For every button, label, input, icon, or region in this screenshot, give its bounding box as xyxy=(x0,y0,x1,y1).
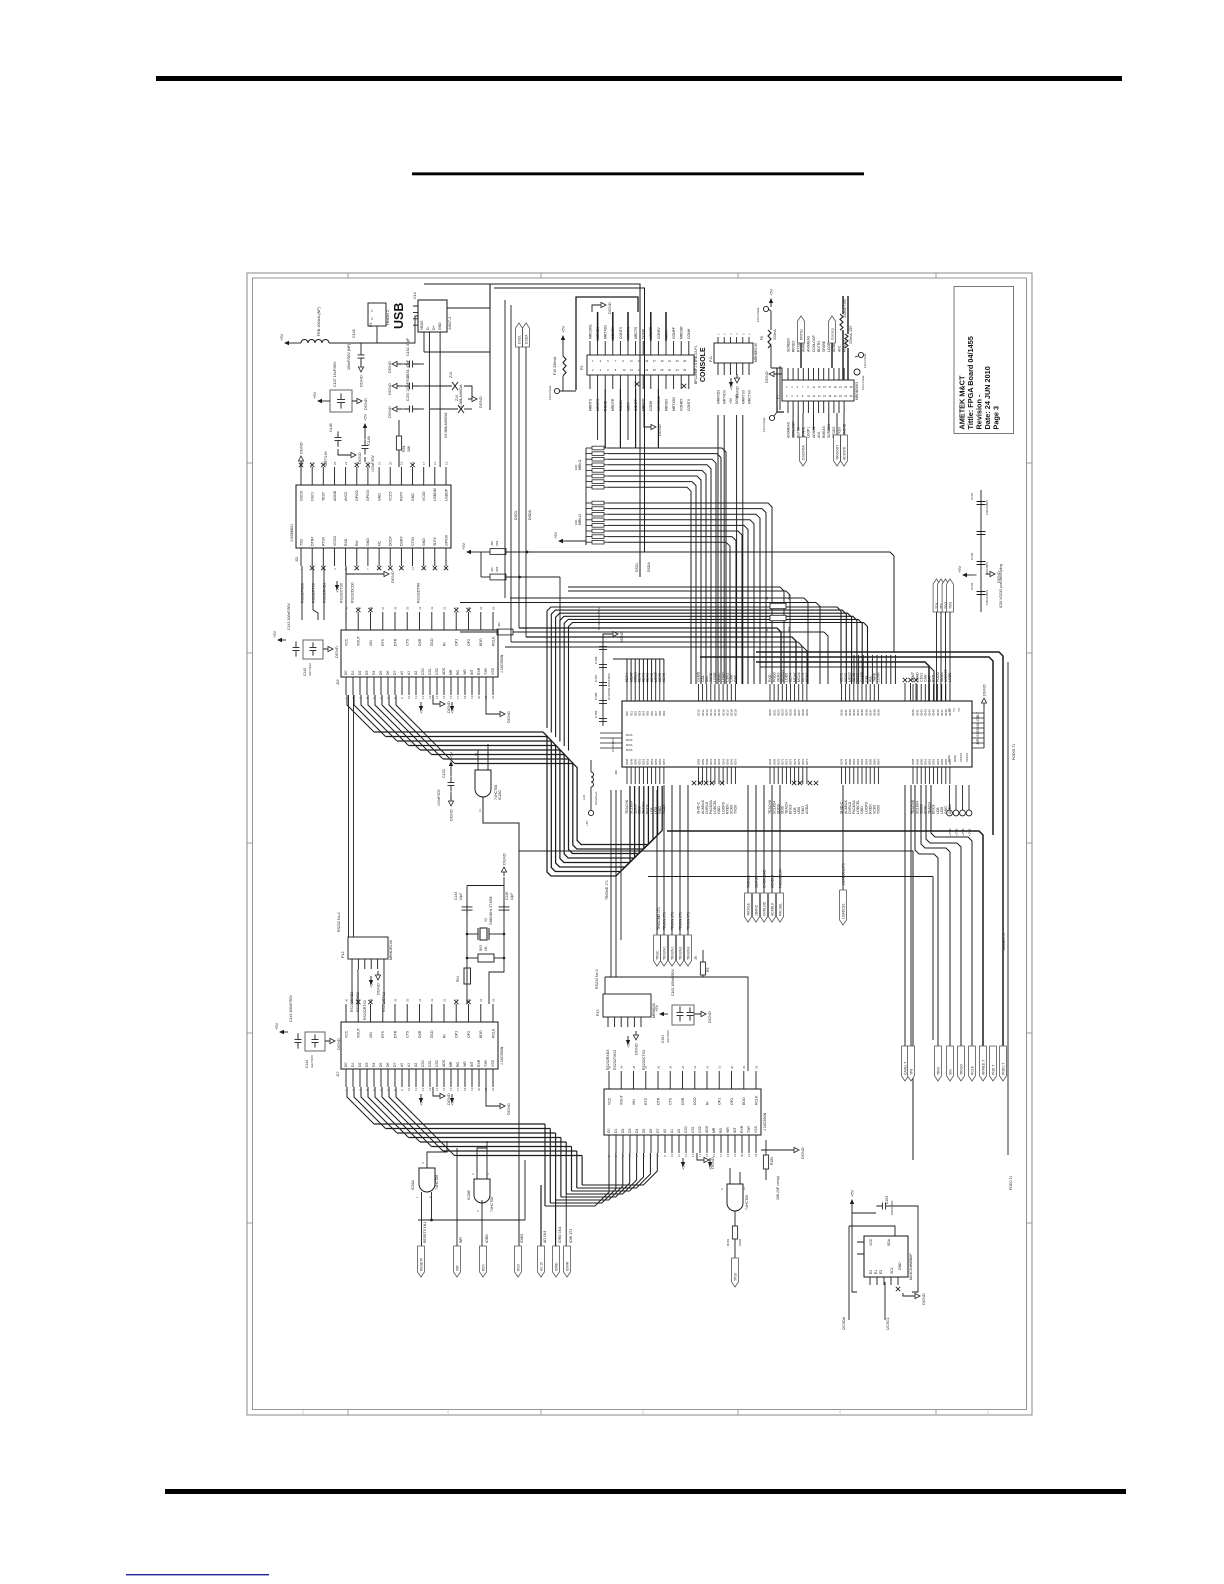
svg-text:32: 32 xyxy=(705,1065,709,1069)
svg-text:DOA: DOA xyxy=(626,748,633,752)
svg-text:2K4: 2K4 xyxy=(787,594,791,600)
svg-text:29: 29 xyxy=(742,1065,746,1069)
power +5V below UART2 xyxy=(419,1094,455,1106)
svg-text:RS232 No.2: RS232 No.2 xyxy=(337,912,341,932)
svg-text:IO19: IO19 xyxy=(734,709,738,716)
svg-text:14: 14 xyxy=(638,368,641,372)
svg-text:+5V: +5V xyxy=(461,542,466,550)
svg-text:A2: A2 xyxy=(414,671,418,675)
capacitor C133 100nF xyxy=(437,769,455,806)
svg-text:31: 31 xyxy=(718,1065,722,1069)
FPGA right GND pins xyxy=(972,684,987,748)
svg-text:WR: WR xyxy=(463,1061,467,1067)
svg-text:13: 13 xyxy=(428,1087,432,1091)
svg-text:DGND: DGND xyxy=(359,375,364,387)
svg-text:INT: INT xyxy=(470,1061,474,1067)
net flags OVERLOAD group xyxy=(745,785,784,922)
svg-text:P12: P12 xyxy=(341,952,345,958)
svg-text:DGND: DGND xyxy=(921,1293,926,1305)
svg-text:J16: J16 xyxy=(336,679,340,685)
capacitor C146b 10pF xyxy=(499,892,515,914)
svg-text:4uF7/16V: 4uF7/16V xyxy=(666,1030,670,1043)
EEPROM net labels xyxy=(842,1316,890,1330)
svg-text:DSR: DSR xyxy=(681,1097,685,1105)
svg-text:DTR#: DTR# xyxy=(310,537,314,546)
svg-text:P4: P4 xyxy=(369,323,373,327)
svg-text:RRTS0: RRTS0 xyxy=(799,329,803,340)
svg-text:MRHDR1X6: MRHDR1X6 xyxy=(754,343,758,362)
svg-text:XIN: XIN xyxy=(632,1099,636,1105)
ground DGND at C107 xyxy=(352,398,368,410)
power +5V at C162 xyxy=(654,1004,668,1016)
svg-text:TRIGIN2: TRIGIN2 xyxy=(678,947,682,960)
svg-text:D2: D2 xyxy=(621,1129,625,1133)
power +5V I2C pullups xyxy=(461,542,475,554)
svg-text:TXD: TXD xyxy=(299,538,303,546)
svg-text:1mm Pads: 1mm Pads xyxy=(863,353,867,368)
svg-text:74HCT00: 74HCT00 xyxy=(745,1195,749,1210)
svg-text:16: 16 xyxy=(712,1153,716,1157)
wire P11 nets down xyxy=(718,415,743,684)
wire FTDI TXD/RXD down to UART1 xyxy=(302,566,346,620)
svg-text:100nF/50V (NF): 100nF/50V (NF) xyxy=(347,344,351,370)
svg-text:MRb11: MRb11 xyxy=(578,459,582,470)
svg-text:D0: D0 xyxy=(607,1129,611,1133)
svg-text:MRb10: MRb10 xyxy=(578,514,582,525)
svg-text:35: 35 xyxy=(406,606,410,610)
net flags TRIGIN group xyxy=(661,785,692,966)
svg-text:+5V: +5V xyxy=(363,413,368,421)
ground DGND at P11 xyxy=(734,374,739,398)
svg-text:21: 21 xyxy=(668,359,671,363)
power +5V at P13 xyxy=(626,1036,631,1048)
svg-text:DGND: DGND xyxy=(390,571,395,583)
svg-text:DGND: DGND xyxy=(657,424,662,436)
svg-text:RDTR0: RDTR0 xyxy=(817,341,821,352)
ground DGND below UART3 xyxy=(697,1153,715,1169)
svg-text:DSDA: DSDA xyxy=(528,509,532,520)
svg-text:SCREEN: SCREEN xyxy=(786,337,790,352)
svg-text:ADS: ADS xyxy=(442,667,446,675)
svg-text:CS0: CS0 xyxy=(421,668,425,675)
resistor R91 10K xyxy=(396,420,411,467)
resistor J60 2K4 pullup xyxy=(475,540,528,554)
svg-text:GND: GND xyxy=(422,538,426,546)
title block xyxy=(954,287,1014,434)
svg-text:DSR: DSR xyxy=(418,638,422,646)
svg-text:OVERLOAD: OVERLOAD xyxy=(762,869,766,888)
wire +5V to USB VBUS xyxy=(293,316,418,343)
power +5V at C133 xyxy=(449,751,454,800)
svg-text:J17: J17 xyxy=(336,1071,340,1077)
svg-text:C152 47pF: C152 47pF xyxy=(406,337,410,356)
svg-text:VCC: VCC xyxy=(607,1097,611,1105)
svg-text:C146: C146 xyxy=(329,423,333,432)
svg-text:IOW 1T1: IOW 1T1 xyxy=(569,1229,573,1243)
svg-text:+5V: +5V xyxy=(553,531,558,539)
svg-text:SPARE: SPARE xyxy=(822,340,826,352)
svg-text:R91: R91 xyxy=(402,445,406,452)
svg-text:〈: 〈 xyxy=(445,1410,449,1415)
svg-text:12: 12 xyxy=(684,1153,688,1157)
power +5V at resistor arrays xyxy=(553,531,586,545)
svg-text:R180: R180 xyxy=(770,1157,774,1165)
svg-text:RCLK: RCLK xyxy=(970,1065,974,1075)
svg-text:10K (NF comp): 10K (NF comp) xyxy=(776,1176,780,1200)
svg-text:IO87: IO87 xyxy=(877,758,881,765)
svg-text:MRDSR: MRDSR xyxy=(680,326,684,339)
svg-text:RI#: RI# xyxy=(355,540,359,546)
resistor R94 100R xyxy=(456,968,471,984)
svg-text:D1: D1 xyxy=(351,671,355,675)
svg-text:DSCIN5A: DSCIN5A xyxy=(801,445,805,460)
svg-text:DSCL: DSCL xyxy=(514,510,518,520)
svg-text:MRDB26K3: MRDB26K3 xyxy=(855,382,859,400)
svg-text:18: 18 xyxy=(463,1087,467,1091)
net flag RRTS0 xyxy=(798,316,805,368)
svg-text:RMEAS: RMEAS xyxy=(822,425,826,438)
wire USB shield loop xyxy=(424,284,490,410)
power +5V at F10 xyxy=(561,325,566,344)
svg-text:MRRXD0: MRRXD0 xyxy=(717,390,721,404)
svg-text:ACK5TD: ACK5TD xyxy=(842,446,846,460)
svg-text:VCCO: VCCO xyxy=(959,752,963,762)
svg-text:12: 12 xyxy=(421,1087,425,1091)
power +5V at C149 xyxy=(363,413,368,432)
svg-text:13: 13 xyxy=(638,359,641,363)
ground DGND at C150 xyxy=(387,406,403,418)
svg-text:+5V: +5V xyxy=(312,391,317,399)
svg-text:14: 14 xyxy=(435,695,439,699)
svg-text:1M: 1M xyxy=(484,946,488,951)
crystal Y2 3.6864MHz xyxy=(466,896,506,940)
IC U26 FPGA XPLS1296 xyxy=(600,684,980,784)
svg-text:2K9: 2K9 xyxy=(495,566,499,572)
FTDI no-connect crosses xyxy=(310,566,448,570)
ground DGND at C146/C149 xyxy=(338,449,365,464)
svg-text:DCD: DCD xyxy=(430,638,434,646)
svg-text:TRIGOUT: TRIGOUT xyxy=(835,445,839,460)
svg-text:F10 330mA: F10 330mA xyxy=(553,356,557,375)
capacitors C156-C160 FPGA decoupling xyxy=(594,640,611,726)
svg-text:J60: J60 xyxy=(490,541,494,546)
svg-text:+5V: +5V xyxy=(419,1098,424,1106)
svg-text:DOA: DOA xyxy=(626,733,633,737)
svg-text:J9: J9 xyxy=(694,956,698,960)
svg-text:VSS: VSS xyxy=(754,1125,758,1133)
IC U17 UART 16C550 #2 xyxy=(336,998,504,1091)
wire crystal frame xyxy=(467,886,504,1005)
svg-text:IC28A: IC28A xyxy=(411,1180,415,1190)
svg-text:+5V: +5V xyxy=(279,333,284,341)
svg-text:25: 25 xyxy=(333,461,337,465)
svg-text:TXD0: TXD0 xyxy=(734,805,738,814)
svg-text:100nF/50V: 100nF/50V xyxy=(985,589,989,605)
svg-text:CS1: CS1 xyxy=(428,668,432,675)
svg-text:ADS: ADS xyxy=(442,1059,446,1067)
svg-text:D0: D0 xyxy=(344,671,348,675)
wire FPGA left side down xyxy=(605,790,621,977)
svg-text:TRIGIN 2T1: TRIGIN 2T1 xyxy=(678,912,682,930)
svg-text:C158: C158 xyxy=(594,692,598,700)
svg-text:22: 22 xyxy=(491,1087,495,1091)
svg-text:C14: C14 xyxy=(413,292,417,299)
svg-text:MRTXD0: MRTXD0 xyxy=(604,325,608,339)
svg-text:+5V: +5V xyxy=(957,565,962,573)
svg-text:MR: MR xyxy=(449,1061,453,1067)
svg-text:+5V: +5V xyxy=(654,1004,659,1012)
net flag DSCIN5A xyxy=(800,413,807,466)
svg-text:100nF/50V: 100nF/50V xyxy=(437,788,441,806)
capacitor C163 100nF xyxy=(876,1196,894,1215)
svg-text:+5V: +5V xyxy=(449,751,454,759)
svg-text:OP1: OP1 xyxy=(718,1098,722,1105)
svg-text:GAIN0.T: GAIN0.T xyxy=(903,1062,907,1075)
net flag ACK5TD xyxy=(841,413,848,466)
capacitor C151 47pF on D+ xyxy=(403,359,430,389)
svg-text:C144: C144 xyxy=(305,1060,309,1068)
TVS diode Z13 V3.5MLA0603A xyxy=(424,372,463,410)
svg-text:TACKLE: TACKLE xyxy=(746,902,750,916)
svg-text:TRGC: TRGC xyxy=(655,950,659,960)
svg-text:34: 34 xyxy=(681,1065,685,1069)
svg-text:Y0: Y0 xyxy=(947,708,951,712)
svg-text:C144: C144 xyxy=(454,892,458,900)
svg-text:AN1: AN1 xyxy=(837,345,841,352)
svg-text:RD: RD xyxy=(456,670,460,675)
svg-text:SCL: SCL xyxy=(890,1267,894,1274)
svg-text:LOADCELLFS: LOADCELLFS xyxy=(842,862,846,885)
svg-text:10: 10 xyxy=(407,1087,411,1091)
power +5V at P11 xyxy=(729,378,734,390)
connector P7 xyxy=(776,380,859,401)
svg-text:E1: E1 xyxy=(874,1270,878,1274)
svg-text:37: 37 xyxy=(644,1065,648,1069)
svg-text:1mm Pads: 1mm Pads xyxy=(756,307,760,322)
svg-text:D2: D2 xyxy=(358,1063,362,1067)
svg-text:RD0: RD0 xyxy=(481,1264,485,1271)
svg-text:DGND: DGND xyxy=(387,406,392,418)
svg-text:PACSEL: PACSEL xyxy=(778,903,782,916)
svg-text:A2: A2 xyxy=(677,1129,681,1133)
svg-text:OP2: OP2 xyxy=(467,639,471,646)
svg-text:DGND: DGND xyxy=(642,328,646,339)
svg-text:ADS: ADS xyxy=(705,1125,709,1133)
wire P7 nets down xyxy=(793,413,829,437)
P12 net labels xyxy=(350,992,386,1020)
svg-text:20: 20 xyxy=(660,368,663,372)
net flag TP26 xyxy=(732,1239,739,1287)
connector P13 RS232 No.3 xyxy=(595,969,656,1027)
svg-text:OSCO: OSCO xyxy=(299,490,303,501)
svg-text:MRTXD0: MRTXD0 xyxy=(723,390,727,404)
svg-text:C163: C163 xyxy=(970,582,974,590)
svg-text:CS2: CS2 xyxy=(435,668,439,675)
svg-text:DSDA: DSDA xyxy=(524,334,528,344)
svg-text:VSS: VSS xyxy=(491,667,495,675)
svg-text:+5V: +5V xyxy=(769,288,774,296)
resistor R3 xyxy=(694,950,710,975)
capacitor C149 100nF/50V xyxy=(362,432,376,472)
svg-text:RXR: RXR xyxy=(477,1059,481,1067)
svg-text:1mm Pads: 1mm Pads xyxy=(861,375,865,390)
wire bus UART3 data xyxy=(545,1153,657,1206)
svg-text:AN0MEAS: AN0MEAS xyxy=(786,421,790,438)
svg-text:11: 11 xyxy=(478,809,482,812)
wire EEPROM power loop xyxy=(849,1206,918,1320)
svg-text:35: 35 xyxy=(669,1065,673,1069)
svg-text:MR: MR xyxy=(712,1127,716,1133)
svg-text:TRIGIN3: TRIGIN3 xyxy=(686,947,690,960)
ground DGND below P3 xyxy=(644,403,662,436)
svg-text:C139 100nF/50V: C139 100nF/50V xyxy=(597,607,601,630)
wire bus right corners xyxy=(700,647,1003,1046)
svg-text:MRHDR2X6: MRHDR2X6 xyxy=(389,940,393,960)
svg-text:〈: 〈 xyxy=(837,1410,841,1415)
svg-text:AD 1N1: AD 1N1 xyxy=(543,1231,547,1243)
svg-text:CTS: CTS xyxy=(406,638,410,646)
svg-text:IC26 VCCIO post decoupling: IC26 VCCIO post decoupling xyxy=(999,564,1003,608)
svg-text:11: 11 xyxy=(414,696,418,699)
svg-text:TRIGIN 1T1: TRIGIN 1T1 xyxy=(670,912,674,930)
svg-text:MRCTS: MRCTS xyxy=(634,326,638,339)
svg-text:RRXD0: RRXD0 xyxy=(791,341,795,352)
svg-text:RESET5 1N1: RESET5 1N1 xyxy=(423,1222,427,1243)
svg-text:DTR: DTR xyxy=(393,1030,397,1038)
svg-text:IORD: IORD xyxy=(485,1234,489,1243)
capacitor C143 100nF xyxy=(287,603,300,657)
svg-text:13: 13 xyxy=(428,695,432,699)
svg-text:CS0: CS0 xyxy=(684,1126,688,1133)
svg-text:J6: J6 xyxy=(765,597,769,601)
svg-text:+5V: +5V xyxy=(274,1022,279,1030)
svg-text:+5V: +5V xyxy=(561,325,566,333)
svg-text:IORD 1N1: IORD 1N1 xyxy=(558,1227,562,1243)
svg-text:100nF/50V: 100nF/50V xyxy=(371,454,375,472)
svg-text:C159: C159 xyxy=(594,710,598,718)
svg-text:D0: D0 xyxy=(344,1063,348,1067)
svg-text:10K: 10K xyxy=(574,465,578,470)
svg-text:〈: 〈 xyxy=(985,1410,989,1415)
svg-text:TXD0: TXD0 xyxy=(877,805,881,814)
svg-text:RXR: RXR xyxy=(477,667,481,675)
svg-text:WR: WR xyxy=(726,1127,730,1133)
svg-text:RS232CTS0: RS232CTS0 xyxy=(339,583,343,603)
svg-text:40: 40 xyxy=(344,998,348,1002)
svg-text:29: 29 xyxy=(479,998,483,1002)
svg-text:C133: C133 xyxy=(442,769,446,778)
svg-text:11: 11 xyxy=(677,1154,681,1157)
svg-text:17: 17 xyxy=(653,359,656,363)
svg-text:36: 36 xyxy=(393,606,397,610)
IC U21 FTDI USB interface xyxy=(290,461,451,570)
svg-text:35: 35 xyxy=(406,998,410,1002)
svg-text:CONSOLE: CONSOLE xyxy=(700,347,707,382)
svg-text:+5V: +5V xyxy=(729,382,734,390)
ground DGND at UART1 caps xyxy=(323,646,339,658)
svg-text:10: 10 xyxy=(670,1153,674,1157)
FTDI bottom net labels xyxy=(300,582,420,603)
svg-text:CONH: CONH xyxy=(687,328,691,339)
svg-text:DGND: DGND xyxy=(387,361,392,373)
svg-text:GND: GND xyxy=(366,538,370,546)
svg-text:GND: GND xyxy=(411,493,415,501)
resistor R180 10K xyxy=(763,1140,780,1200)
svg-text:1mm Pads: 1mm Pads xyxy=(548,385,552,400)
svg-text:VCC: VCC xyxy=(869,1238,873,1246)
svg-text:D4: D4 xyxy=(372,671,376,675)
svg-text:21: 21 xyxy=(747,1153,751,1157)
svg-text:OP1: OP1 xyxy=(455,1031,459,1038)
bottom flag labels xyxy=(423,1222,573,1243)
page bottom rule xyxy=(165,1489,1126,1494)
svg-text:24: 24 xyxy=(344,461,348,465)
svg-text:WR: WR xyxy=(463,669,467,675)
svg-text:DGND: DGND xyxy=(376,983,381,995)
connector P3 console xyxy=(580,346,698,384)
ground DGND at P3 loop xyxy=(597,302,612,314)
svg-text:DGND: DGND xyxy=(607,302,612,314)
svg-text:Page 3: Page 3 xyxy=(992,406,1001,430)
svg-text:100nF/50V: 100nF/50V xyxy=(985,499,989,515)
FPGA top pin labels xyxy=(625,669,952,682)
TVS diode Z14 V3.5MLA0603A xyxy=(430,395,464,438)
svg-text:TRIGIN 3T1: TRIGIN 3T1 xyxy=(686,912,690,930)
svg-text:VSS: VSS xyxy=(491,1059,495,1067)
svg-text:CON5V: CON5V xyxy=(657,326,661,339)
svg-text:BDO: BDO xyxy=(479,1030,483,1038)
svg-text:L10: L10 xyxy=(582,795,586,800)
svg-text:33: 33 xyxy=(693,1065,697,1069)
ground DGND of TVS xyxy=(464,386,483,409)
svg-text:R181: R181 xyxy=(726,1238,730,1246)
pad 1mm right2 of P7 xyxy=(854,369,865,390)
svg-text:CTS: CTS xyxy=(406,1030,410,1038)
wire right bus to flags xyxy=(667,785,983,1046)
capacitor C142 4uF7 xyxy=(303,640,323,676)
svg-text:DGND: DGND xyxy=(800,1147,805,1159)
P3 top pins xyxy=(588,312,691,355)
svg-text:+2V5: +2V5 xyxy=(961,828,965,836)
svg-text:1BANC: 1BANC xyxy=(754,876,758,888)
resistor J61 2K4 pullup xyxy=(481,552,560,628)
USB label xyxy=(392,303,406,329)
svg-text:RCLK: RCLK xyxy=(491,636,495,646)
svg-text:ACKBLK: ACKBLK xyxy=(770,902,774,916)
wire gate inputs xyxy=(460,744,488,758)
ground DGND at C151 xyxy=(387,383,403,395)
svg-text:TRIGIN1: TRIGIN1 xyxy=(670,947,674,960)
svg-text:POD0.T: POD0.T xyxy=(1001,1063,1005,1075)
svg-text:XOUT: XOUT xyxy=(357,635,361,646)
fuse F6 330mA xyxy=(760,311,782,380)
svg-text:RTS: RTS xyxy=(644,1097,648,1105)
svg-text:19: 19 xyxy=(470,695,474,699)
svg-text:GPIO3: GPIO3 xyxy=(366,490,370,501)
svg-text:POD.T: POD.T xyxy=(991,1065,995,1075)
svg-text:GPIO2: GPIO2 xyxy=(355,490,359,501)
svg-text:FEB 400mA (NF): FEB 400mA (NF) xyxy=(317,306,321,336)
svg-text:A0: A0 xyxy=(400,1063,404,1067)
svg-text:D3: D3 xyxy=(628,1129,632,1133)
capacitor C145 100nF xyxy=(289,995,302,1049)
svg-text:USBDP: USBDP xyxy=(444,488,448,501)
svg-text:OVRLOD: OVRLOD xyxy=(762,901,766,916)
ground DGND below UART1 xyxy=(433,695,451,713)
svg-text:+5V: +5V xyxy=(681,1162,686,1170)
svg-text:DGND: DGND xyxy=(449,809,454,821)
gate U28C AND 74HCT08 xyxy=(474,752,502,812)
